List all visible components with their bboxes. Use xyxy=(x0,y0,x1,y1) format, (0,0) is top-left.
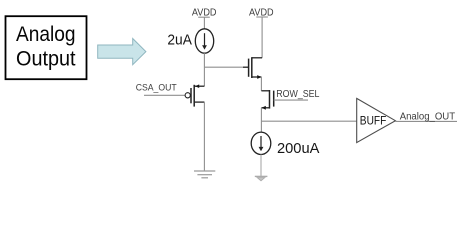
ground (three-bar) xyxy=(194,171,215,178)
wire M3 source to node xyxy=(260,108,262,132)
wire buffer output Analog_OUT xyxy=(395,120,457,122)
annotation block arrow xyxy=(98,39,146,65)
svg-text:Output: Output xyxy=(16,47,76,70)
wire node to M2 gate xyxy=(204,66,243,68)
transistor M1 (PMOS, gate bubble) xyxy=(185,84,204,106)
op-amp buffer U1 BUFF xyxy=(357,98,396,142)
wire AVDD to current source I1 xyxy=(203,17,205,29)
wire AVDD to M2 drain xyxy=(261,17,263,58)
annotation box "Analog Output" xyxy=(6,16,87,79)
svg-text:AVDD: AVDD xyxy=(192,7,217,18)
wire node to buffer input xyxy=(261,120,356,122)
wire I1 to M1 drain xyxy=(203,53,205,86)
svg-text:200uA: 200uA xyxy=(277,140,319,157)
svg-text:2uA: 2uA xyxy=(167,32,192,49)
svg-text:Analog_OUT: Analog_OUT xyxy=(400,111,455,122)
wire CSA_OUT to M1 gate xyxy=(144,94,185,96)
svg-text:CSA_OUT: CSA_OUT xyxy=(136,82,177,93)
transistor M2 (NMOS) xyxy=(249,57,263,79)
power AVDD (net label, branch 1) xyxy=(192,7,217,18)
current source I2 200uA xyxy=(251,132,271,154)
transistor M3 (NMOS, mirrored, gate right) xyxy=(261,90,273,110)
wire M3 gate stub xyxy=(274,99,308,101)
power AVDD (net label, branch 2) xyxy=(249,7,274,18)
current source I1 2uA xyxy=(195,29,213,53)
svg-text:ROW_SEL: ROW_SEL xyxy=(276,89,320,100)
svg-text:BUFF: BUFF xyxy=(360,114,387,128)
wire M1 source to ground xyxy=(203,102,205,171)
ground (bar-triangle) xyxy=(255,176,268,180)
svg-text:Analog: Analog xyxy=(16,23,76,46)
wire M2 source to M3 drain xyxy=(260,77,262,91)
wire I2 to ground xyxy=(260,155,262,177)
